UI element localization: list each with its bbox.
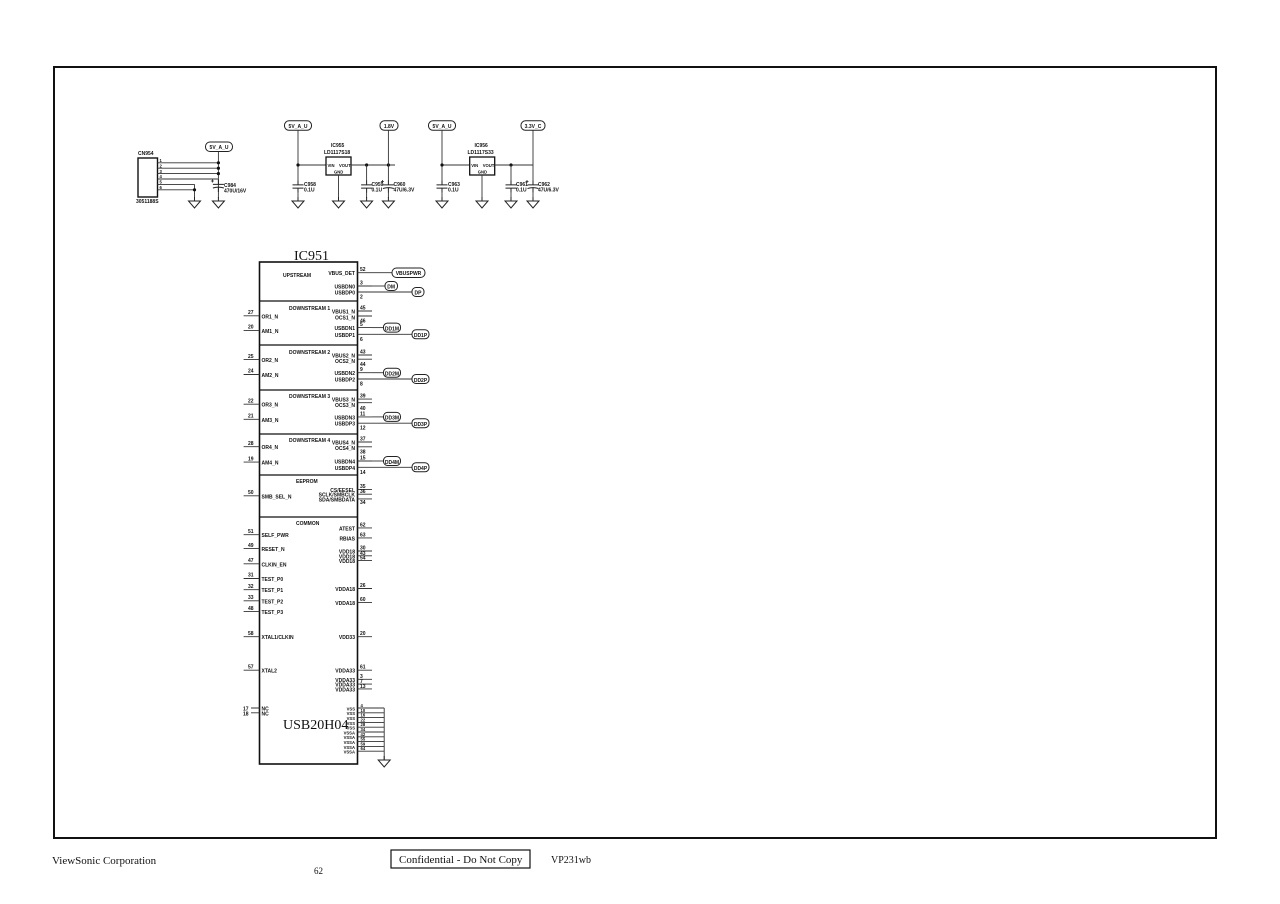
regulator IC955 bbox=[285, 121, 416, 208]
svg-text:OCS3_N: OCS3_N bbox=[335, 403, 355, 409]
svg-text:SMB_SEL_N: SMB_SEL_N bbox=[262, 494, 292, 500]
svg-text:AM2_N: AM2_N bbox=[262, 373, 279, 379]
svg-text:ViewSonic Corporation: ViewSonic Corporation bbox=[52, 855, 157, 867]
node DD2M label bbox=[372, 368, 401, 377]
node DD3P label bbox=[372, 419, 429, 428]
svg-text:DD3M: DD3M bbox=[385, 416, 399, 422]
svg-text:TEST_P2: TEST_P2 bbox=[262, 599, 284, 605]
svg-text:5V_A_U: 5V_A_U bbox=[210, 145, 229, 151]
svg-text:USBDP3: USBDP3 bbox=[335, 422, 356, 428]
IC951 left pins bbox=[243, 310, 294, 717]
svg-text:24: 24 bbox=[248, 369, 254, 375]
svg-text:DOWNSTREAM 3: DOWNSTREAM 3 bbox=[289, 394, 330, 400]
svg-text:20: 20 bbox=[360, 631, 366, 637]
node 5V_A_U label bbox=[206, 142, 233, 152]
svg-text:62: 62 bbox=[360, 522, 366, 528]
svg-text:USBDP0: USBDP0 bbox=[335, 291, 356, 297]
svg-text:Confidential - Do Not Copy: Confidential - Do Not Copy bbox=[399, 854, 523, 866]
svg-text:32: 32 bbox=[248, 584, 254, 590]
svg-text:39: 39 bbox=[360, 394, 366, 400]
svg-text:USB20H04: USB20H04 bbox=[283, 718, 348, 733]
node DP label bbox=[372, 288, 424, 297]
svg-text:VDD18: VDD18 bbox=[339, 559, 355, 565]
node DD2P label bbox=[372, 375, 429, 384]
svg-text:USBDN2: USBDN2 bbox=[334, 371, 355, 377]
svg-text:31: 31 bbox=[248, 573, 254, 579]
svg-text:GND: GND bbox=[478, 170, 487, 175]
svg-text:14: 14 bbox=[360, 470, 366, 476]
svg-text:470U/16V: 470U/16V bbox=[224, 189, 247, 195]
node DD1M label bbox=[372, 323, 401, 332]
svg-text:USBDN1: USBDN1 bbox=[334, 326, 355, 332]
svg-text:VBUS_DET: VBUS_DET bbox=[328, 271, 355, 277]
svg-text:2: 2 bbox=[160, 163, 163, 168]
svg-text:NC: NC bbox=[262, 711, 270, 717]
svg-text:26: 26 bbox=[360, 583, 366, 589]
svg-text:TEST_P0: TEST_P0 bbox=[262, 577, 284, 583]
svg-text:USBDP4: USBDP4 bbox=[335, 466, 356, 472]
svg-text:64: 64 bbox=[361, 746, 366, 751]
svg-text:VDDA33: VDDA33 bbox=[335, 687, 355, 693]
svg-text:USBDN4: USBDN4 bbox=[334, 460, 355, 466]
svg-text:0.1U: 0.1U bbox=[448, 188, 459, 194]
svg-text:36: 36 bbox=[360, 489, 366, 495]
svg-text:1: 1 bbox=[160, 158, 163, 163]
svg-text:DD4P: DD4P bbox=[414, 466, 428, 472]
svg-text:OR2_N: OR2_N bbox=[262, 358, 279, 364]
svg-text:LD1117S33: LD1117S33 bbox=[468, 150, 494, 156]
svg-text:VOUT: VOUT bbox=[339, 163, 351, 168]
svg-text:CLKIN_EN: CLKIN_EN bbox=[262, 562, 287, 568]
svg-text:33: 33 bbox=[248, 595, 254, 601]
svg-text:DD1M: DD1M bbox=[385, 326, 399, 332]
svg-text:ATEST: ATEST bbox=[339, 526, 355, 532]
svg-text:49: 49 bbox=[248, 543, 254, 549]
op-amp U1 : main hub IC951 USB20H04 bbox=[260, 249, 358, 764]
svg-text:AM4_N: AM4_N bbox=[262, 461, 279, 467]
svg-text:DOWNSTREAM 2: DOWNSTREAM 2 bbox=[289, 350, 330, 356]
svg-text:45: 45 bbox=[360, 306, 366, 312]
svg-text:9: 9 bbox=[360, 367, 363, 373]
svg-text:20: 20 bbox=[248, 325, 254, 331]
svg-text:DP: DP bbox=[415, 290, 423, 296]
svg-text:0.1U: 0.1U bbox=[304, 188, 315, 194]
svg-text:DD4M: DD4M bbox=[385, 460, 399, 466]
svg-text:0.1U: 0.1U bbox=[372, 188, 383, 194]
svg-text:DD3P: DD3P bbox=[414, 422, 428, 428]
svg-text:47U/6.3V: 47U/6.3V bbox=[394, 188, 416, 194]
svg-text:28: 28 bbox=[248, 441, 254, 447]
svg-text:22: 22 bbox=[248, 398, 254, 404]
svg-text:OR3_N: OR3_N bbox=[262, 403, 279, 409]
node DM label bbox=[372, 282, 398, 291]
svg-text:6: 6 bbox=[160, 185, 163, 190]
svg-text:11: 11 bbox=[360, 411, 366, 417]
svg-text:OR1_N: OR1_N bbox=[262, 314, 279, 320]
svg-text:27: 27 bbox=[248, 310, 254, 316]
svg-text:58: 58 bbox=[248, 631, 254, 637]
svg-text:3: 3 bbox=[360, 281, 363, 287]
svg-text:15: 15 bbox=[360, 456, 366, 462]
footer bbox=[52, 850, 591, 876]
svg-text:OCS4_N: OCS4_N bbox=[335, 446, 355, 452]
svg-text:OCS1_N: OCS1_N bbox=[335, 316, 355, 322]
svg-text:5V_A_U: 5V_A_U bbox=[289, 124, 308, 130]
svg-text:XTAL2: XTAL2 bbox=[262, 669, 278, 675]
svg-text:8: 8 bbox=[360, 382, 363, 388]
ground C984 bbox=[212, 197, 224, 208]
svg-text:DOWNSTREAM 4: DOWNSTREAM 4 bbox=[289, 438, 330, 444]
svg-text:63: 63 bbox=[360, 532, 366, 538]
svg-text:DD1P: DD1P bbox=[414, 333, 428, 339]
svg-text:60: 60 bbox=[360, 597, 366, 603]
svg-text:RBIAS: RBIAS bbox=[339, 536, 355, 542]
svg-text:1.8V: 1.8V bbox=[384, 124, 395, 130]
ground : VSS tie bbox=[378, 756, 390, 767]
svg-text:RESET_N: RESET_N bbox=[262, 547, 285, 553]
svg-text:DM: DM bbox=[387, 284, 395, 290]
svg-text:IC955: IC955 bbox=[331, 143, 345, 149]
svg-text:34: 34 bbox=[360, 500, 366, 506]
svg-text:DD2M: DD2M bbox=[385, 372, 399, 378]
wire CN954 pins bbox=[158, 152, 219, 197]
svg-text:OR4_N: OR4_N bbox=[262, 445, 279, 451]
svg-text:VSSA: VSSA bbox=[344, 750, 355, 755]
IC951 right pins bbox=[319, 267, 372, 693]
svg-text:LD1117S18: LD1117S18 bbox=[324, 150, 350, 156]
ground CN954 pins 5-6 bbox=[189, 197, 201, 208]
svg-text:3.3V_C: 3.3V_C bbox=[525, 124, 542, 130]
svg-text:5V_A_U: 5V_A_U bbox=[433, 124, 452, 130]
svg-text:AM3_N: AM3_N bbox=[262, 418, 279, 424]
svg-text:VDD33: VDD33 bbox=[339, 635, 355, 641]
capacitor C984 bbox=[211, 179, 247, 198]
svg-text:0.1U: 0.1U bbox=[516, 188, 527, 194]
svg-text:54: 54 bbox=[360, 556, 366, 562]
svg-text:61: 61 bbox=[360, 665, 366, 671]
svg-text:USBDN3: USBDN3 bbox=[334, 415, 355, 421]
svg-text:COMMON: COMMON bbox=[296, 521, 320, 527]
svg-text:VBUSPWR: VBUSPWR bbox=[396, 271, 422, 277]
svg-text:VDDA18: VDDA18 bbox=[335, 587, 355, 593]
svg-text:OCS2_N: OCS2_N bbox=[335, 359, 355, 365]
svg-text:UPSTREAM: UPSTREAM bbox=[283, 273, 311, 279]
svg-text:50: 50 bbox=[248, 490, 254, 496]
svg-text:VIN: VIN bbox=[328, 163, 335, 168]
svg-text:19: 19 bbox=[248, 456, 254, 462]
node DD4P label bbox=[372, 463, 429, 472]
svg-text:5: 5 bbox=[360, 322, 363, 328]
node DD4M label bbox=[372, 457, 401, 466]
svg-text:XTAL1/CLKIN: XTAL1/CLKIN bbox=[262, 635, 295, 641]
node VBUSPWR label bbox=[372, 268, 425, 278]
svg-text:37: 37 bbox=[360, 437, 366, 443]
regulator IC956 bbox=[429, 121, 560, 208]
svg-text:6: 6 bbox=[360, 337, 363, 343]
svg-text:DOWNSTREAM 1: DOWNSTREAM 1 bbox=[289, 306, 330, 312]
svg-text:USBDP1: USBDP1 bbox=[335, 333, 356, 339]
svg-text:3: 3 bbox=[160, 169, 163, 174]
svg-text:CN954: CN954 bbox=[138, 151, 154, 157]
svg-text:VDDA18: VDDA18 bbox=[335, 601, 355, 607]
svg-text:57: 57 bbox=[248, 664, 254, 670]
svg-text:62: 62 bbox=[314, 866, 323, 876]
svg-text:AM1_N: AM1_N bbox=[262, 329, 279, 335]
svg-text:VOUT: VOUT bbox=[483, 163, 495, 168]
svg-text:5: 5 bbox=[160, 180, 163, 185]
svg-text:13: 13 bbox=[360, 684, 366, 690]
svg-text:GND: GND bbox=[334, 170, 343, 175]
svg-text:TEST_P3: TEST_P3 bbox=[262, 610, 284, 616]
border frame bbox=[54, 67, 1216, 838]
svg-text:VP231wb: VP231wb bbox=[551, 855, 591, 866]
svg-text:2: 2 bbox=[360, 295, 363, 301]
connector CN954 bbox=[136, 151, 163, 205]
svg-text:52: 52 bbox=[360, 267, 366, 273]
svg-text:51: 51 bbox=[248, 529, 254, 535]
svg-text:TEST_P1: TEST_P1 bbox=[262, 588, 284, 594]
svg-text:EEPROM: EEPROM bbox=[296, 479, 318, 485]
svg-text:12: 12 bbox=[360, 426, 366, 432]
svg-text:SELF_PWR: SELF_PWR bbox=[262, 533, 290, 539]
svg-text:47: 47 bbox=[248, 558, 254, 564]
IC951 VSS pins + ground tie bbox=[344, 703, 385, 760]
svg-text:SDA/SMBDATA: SDA/SMBDATA bbox=[319, 497, 356, 503]
node DD3M label bbox=[372, 412, 401, 421]
svg-text:IC956: IC956 bbox=[475, 143, 489, 149]
svg-text:18: 18 bbox=[243, 711, 249, 717]
svg-text:USBDP2: USBDP2 bbox=[335, 378, 356, 384]
svg-text:48: 48 bbox=[248, 606, 254, 612]
node DD1P label bbox=[372, 330, 429, 339]
svg-text:21: 21 bbox=[248, 414, 254, 420]
svg-text:VDDA33: VDDA33 bbox=[335, 669, 355, 675]
svg-text:25: 25 bbox=[248, 354, 254, 360]
svg-text:38: 38 bbox=[360, 449, 366, 455]
svg-text:DD2P: DD2P bbox=[414, 378, 428, 384]
svg-text:3051188S: 3051188S bbox=[136, 199, 159, 205]
svg-text:4: 4 bbox=[160, 174, 163, 179]
svg-text:47U/6.3V: 47U/6.3V bbox=[538, 188, 560, 194]
svg-text:VIN: VIN bbox=[471, 163, 478, 168]
svg-text:43: 43 bbox=[360, 350, 366, 356]
